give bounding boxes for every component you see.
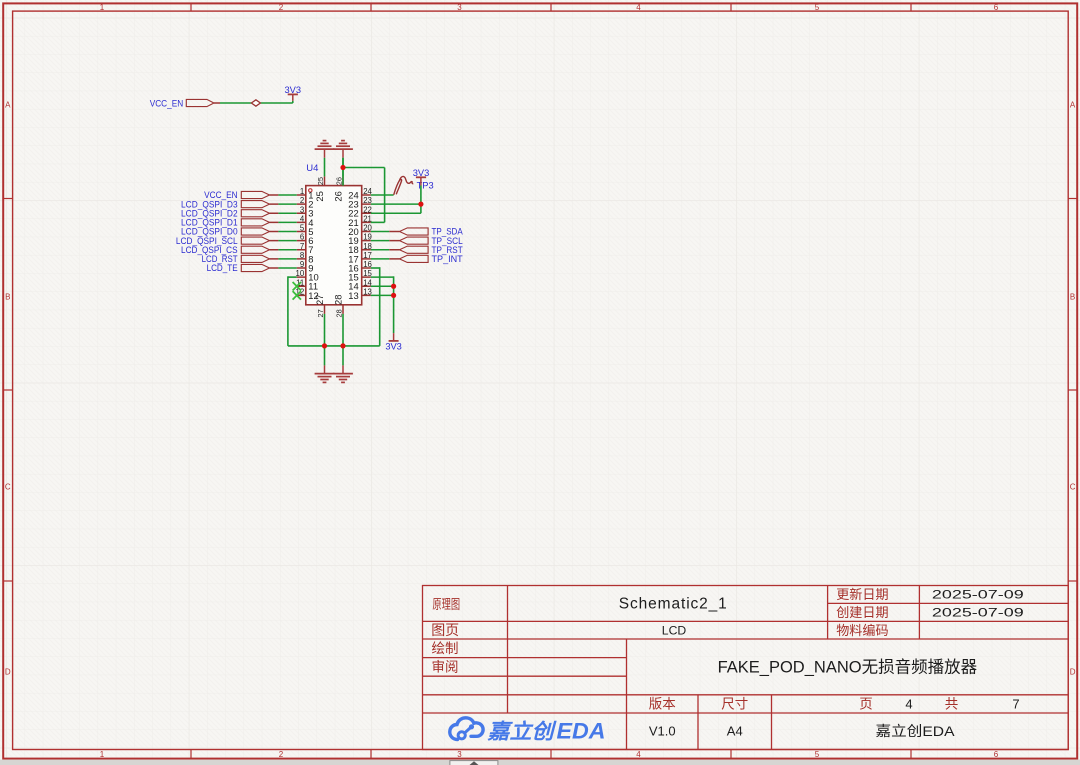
pin 27: [314, 295, 325, 318]
wire ground to pin 26: [342, 158, 344, 177]
wire pin 20: [371, 231, 400, 233]
power flag 3V3 (top left): [285, 85, 302, 103]
svg-text:2025-07-09: 2025-07-09: [932, 606, 1024, 620]
scrollbar arrow: [470, 761, 479, 765]
svg-text:16: 16: [363, 260, 372, 269]
scrollbar thumb: [450, 761, 498, 765]
wire pin 17: [371, 258, 400, 260]
wire pin 14: [371, 285, 394, 287]
wire pin 15 to 3V3 column: [371, 276, 394, 333]
net flag LCD_QSPI_SCL: [176, 236, 270, 246]
pin 4: [297, 214, 314, 227]
svg-text:17: 17: [363, 251, 372, 260]
svg-text:4: 4: [905, 696, 912, 711]
svg-text:5: 5: [300, 224, 305, 233]
svg-text:D: D: [5, 668, 11, 677]
svg-text:2: 2: [300, 196, 304, 205]
net flag LCD_QSPI_D1: [181, 218, 269, 228]
svg-text:1: 1: [100, 750, 105, 759]
svg-text:更新日期: 更新日期: [836, 587, 888, 602]
svg-text:9: 9: [300, 260, 304, 269]
svg-text:27: 27: [316, 309, 325, 317]
svg-text:图页: 图页: [431, 622, 459, 638]
wire 3V3 to pins 23/22: [371, 186, 421, 214]
pin 1 indicator dot: [309, 189, 312, 192]
svg-text:TP_INT: TP_INT: [432, 254, 464, 264]
test point TP3 squiggle: [394, 179, 402, 194]
svg-text:D: D: [1070, 668, 1076, 677]
wire pin 6: [270, 240, 297, 242]
junction (pin 14 row): [391, 284, 396, 289]
svg-text:TP3: TP3: [417, 181, 434, 191]
pin 19: [348, 233, 372, 246]
svg-text:5: 5: [815, 3, 820, 12]
net flag VCC_EN: [150, 98, 214, 108]
pin 13: [348, 287, 372, 300]
svg-text:A4: A4: [727, 724, 743, 739]
pin 24: [348, 187, 372, 200]
pin 9: [297, 260, 314, 273]
svg-text:B: B: [5, 293, 10, 302]
scrollbar track: [0, 760, 1080, 765]
pin 12: [296, 287, 319, 300]
svg-text:V1.0: V1.0: [649, 724, 676, 739]
svg-text:版本: 版本: [649, 697, 677, 712]
svg-text:7: 7: [1012, 696, 1019, 711]
svg-text:4: 4: [636, 750, 641, 759]
pin 26: [333, 176, 344, 201]
net port diamond: [251, 100, 260, 106]
svg-text:2: 2: [279, 750, 284, 759]
svg-text:28: 28: [333, 295, 344, 305]
op-amp U4 body: [306, 186, 362, 305]
pin 23: [348, 196, 372, 209]
svg-text:页: 页: [859, 697, 873, 712]
svg-text:VCC_EN: VCC_EN: [150, 98, 184, 108]
wire pin 19: [371, 240, 400, 242]
svg-text:13: 13: [363, 287, 372, 296]
svg-text:LCD_TE: LCD_TE: [207, 263, 238, 273]
svg-text:创建日期: 创建日期: [836, 605, 888, 620]
svg-text:绘制: 绘制: [432, 641, 459, 656]
svg-text:原理图: 原理图: [432, 597, 460, 612]
svg-text:4: 4: [636, 3, 641, 12]
pin 16: [348, 260, 372, 273]
net flag TP_SCL: [400, 236, 463, 246]
net flag LCD_QSPI_D0: [181, 227, 269, 237]
junction (pin26 column): [340, 165, 345, 170]
ground (top, pin 26): [333, 141, 353, 158]
wire bottom rail: [288, 345, 380, 347]
pin 20: [348, 224, 372, 237]
svg-text:6: 6: [994, 750, 999, 759]
pin 18: [348, 242, 372, 255]
pin 28: [333, 295, 344, 318]
svg-text:25: 25: [314, 191, 325, 201]
svg-text:C: C: [1070, 483, 1076, 492]
svg-text:3: 3: [457, 750, 462, 759]
wire pin 7: [270, 249, 297, 251]
wire pin 8: [270, 258, 297, 260]
svg-text:26: 26: [334, 177, 343, 185]
svg-text:10: 10: [296, 269, 305, 278]
net flag LCD_QSPI_D3: [181, 199, 269, 209]
svg-text:3V3: 3V3: [385, 341, 402, 351]
svg-text:1: 1: [100, 3, 105, 12]
svg-text:3: 3: [300, 205, 304, 214]
pin 5: [297, 224, 314, 237]
logo JLC EDA cloud: [450, 718, 483, 740]
pin 1: [297, 187, 314, 200]
svg-text:18: 18: [363, 242, 372, 251]
title block: [423, 586, 1069, 750]
wire pin 27 to ground: [324, 314, 326, 366]
svg-text:7: 7: [300, 242, 304, 251]
pin 2: [297, 196, 314, 209]
svg-text:22: 22: [363, 205, 372, 214]
no-connect pin 12: [293, 291, 301, 299]
wire pin26 net to pin 21: [343, 158, 385, 223]
junction (pin 23 row): [418, 202, 423, 207]
svg-text:21: 21: [363, 214, 372, 223]
svg-text:26: 26: [333, 191, 344, 201]
wire pin 16 to bottom rail: [371, 267, 380, 346]
pin 10: [296, 269, 319, 282]
ground (bottom, pin 27): [315, 365, 335, 382]
svg-text:FAKE_POD_NANO无损音频播放器: FAKE_POD_NANO无损音频播放器: [718, 657, 978, 676]
wire VCC_EN to 3V3: [214, 102, 293, 104]
svg-text:23: 23: [363, 196, 372, 205]
wire pin 24 to TP3: [371, 194, 394, 196]
svg-text:25: 25: [316, 177, 325, 185]
svg-text:2025-07-09: 2025-07-09: [932, 588, 1024, 602]
title block text: [431, 587, 1024, 739]
power flag 3V3 (at TP3): [413, 168, 430, 185]
svg-text:19: 19: [363, 233, 372, 242]
svg-text:28: 28: [334, 309, 343, 317]
svg-text:物料编码: 物料编码: [836, 623, 888, 638]
pin 15: [348, 269, 372, 282]
junction (pin 27 rail): [322, 343, 327, 348]
wire pin 4: [270, 221, 297, 223]
svg-text:审阅: 审阅: [432, 660, 459, 675]
net flag VCC_EN: [204, 190, 269, 200]
junction (pin 28 rail): [340, 343, 345, 348]
pin 21: [348, 214, 372, 227]
wire pin 13: [371, 294, 394, 296]
svg-text:3: 3: [457, 3, 462, 12]
svg-text:A: A: [1070, 101, 1076, 110]
pin 25: [314, 176, 325, 201]
net flag TP_INT: [400, 254, 464, 264]
svg-text:2: 2: [279, 3, 284, 12]
svg-text:U4: U4: [306, 163, 318, 174]
svg-text:Schematic2_1: Schematic2_1: [619, 595, 727, 612]
svg-text:LCD: LCD: [662, 623, 687, 637]
pin 11: [296, 278, 318, 291]
svg-text:5: 5: [815, 750, 820, 759]
wire pin 18: [371, 249, 400, 251]
svg-text:13: 13: [348, 290, 358, 301]
power flag 3V3 (bottom right): [385, 333, 402, 351]
pin 14: [348, 278, 372, 291]
svg-text:共: 共: [945, 697, 959, 712]
pin 6: [297, 233, 314, 246]
pin 7: [297, 242, 314, 255]
svg-text:尺寸: 尺寸: [721, 697, 748, 712]
svg-text:1: 1: [300, 187, 304, 196]
wire pin 5: [270, 231, 297, 233]
svg-text:B: B: [1070, 293, 1075, 302]
wire pin 2: [270, 203, 297, 205]
net flag LCD_QSPI_D2: [181, 208, 269, 218]
net flag LCD_QSPI_CS: [181, 245, 269, 255]
net flag LCD_TE: [207, 263, 270, 273]
pin 22: [348, 205, 372, 218]
wire pin 28 to ground: [342, 314, 344, 366]
net flag LCD_RST: [202, 254, 270, 264]
svg-text:27: 27: [314, 295, 325, 305]
pin 17: [348, 251, 372, 264]
wire pin 3: [270, 212, 297, 214]
ground (top, pin 25): [315, 141, 335, 158]
svg-text:C: C: [5, 483, 11, 492]
wire pin 1: [270, 194, 297, 196]
svg-text:6: 6: [994, 3, 999, 12]
svg-text:EDA: EDA: [557, 719, 606, 744]
wire ground to pin 25: [324, 158, 326, 177]
svg-text:8: 8: [300, 251, 304, 260]
pin 3: [297, 205, 314, 218]
wire pin 10 to bottom rail: [288, 276, 297, 346]
net flag TP_RST: [400, 245, 463, 255]
wire pin 9: [270, 267, 297, 269]
no-connect pin 11: [293, 282, 301, 290]
svg-text:4: 4: [300, 214, 305, 223]
svg-text:6: 6: [300, 233, 304, 242]
net flag TP_SDA: [400, 227, 464, 237]
pin 8: [297, 251, 314, 264]
svg-text:A: A: [5, 101, 11, 110]
svg-text:嘉立创EDA: 嘉立创EDA: [876, 723, 956, 739]
junction (pin 13 row): [391, 293, 396, 298]
svg-text:嘉立创: 嘉立创: [486, 720, 556, 744]
ground (bottom, pin 28): [333, 365, 353, 382]
